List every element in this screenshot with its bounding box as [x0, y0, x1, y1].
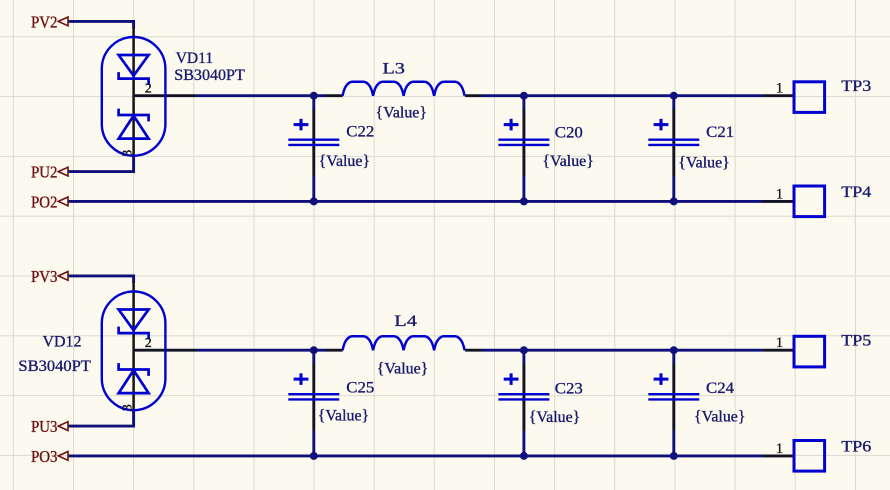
svg-text:1: 1 [776, 186, 784, 202]
svg-text:TP5: TP5 [841, 331, 871, 350]
svg-text:SB3040PT: SB3040PT [174, 65, 245, 84]
svg-text:2: 2 [145, 336, 152, 351]
svg-text:PU3: PU3 [31, 417, 58, 436]
svg-text:1: 1 [776, 335, 784, 351]
svg-text:{Value}: {Value} [529, 409, 581, 426]
svg-text:{Value}: {Value} [377, 360, 429, 377]
svg-text:{Value}: {Value} [694, 409, 746, 426]
svg-text:PV3: PV3 [31, 267, 58, 286]
svg-text:2: 2 [145, 81, 152, 96]
svg-text:{Value}: {Value} [542, 153, 594, 170]
svg-text:C21: C21 [706, 124, 734, 141]
svg-text:3: 3 [121, 150, 136, 157]
svg-text:1: 1 [776, 441, 784, 457]
svg-text:{Value}: {Value} [678, 154, 730, 171]
svg-text:C24: C24 [706, 380, 734, 397]
svg-text:{Value}: {Value} [318, 408, 370, 425]
svg-text:TP4: TP4 [841, 182, 871, 201]
svg-text:L3: L3 [382, 61, 405, 78]
svg-text:C25: C25 [346, 380, 374, 397]
svg-text:C20: C20 [555, 124, 583, 141]
svg-text:PO2: PO2 [31, 192, 58, 211]
svg-text:PU2: PU2 [31, 162, 58, 181]
svg-text:TP3: TP3 [841, 76, 871, 95]
svg-text:L4: L4 [394, 313, 417, 330]
svg-text:TP6: TP6 [841, 437, 871, 456]
svg-text:3: 3 [121, 404, 136, 411]
svg-text:VD12: VD12 [43, 331, 82, 350]
svg-text:PV2: PV2 [31, 12, 58, 31]
svg-text:SB3040PT: SB3040PT [18, 356, 91, 375]
svg-text:{Value}: {Value} [319, 153, 371, 170]
svg-text:PO3: PO3 [31, 447, 58, 466]
svg-text:{Value}: {Value} [376, 105, 428, 122]
svg-text:C22: C22 [346, 124, 374, 141]
svg-text:C23: C23 [555, 381, 583, 398]
svg-text:1: 1 [776, 81, 784, 97]
